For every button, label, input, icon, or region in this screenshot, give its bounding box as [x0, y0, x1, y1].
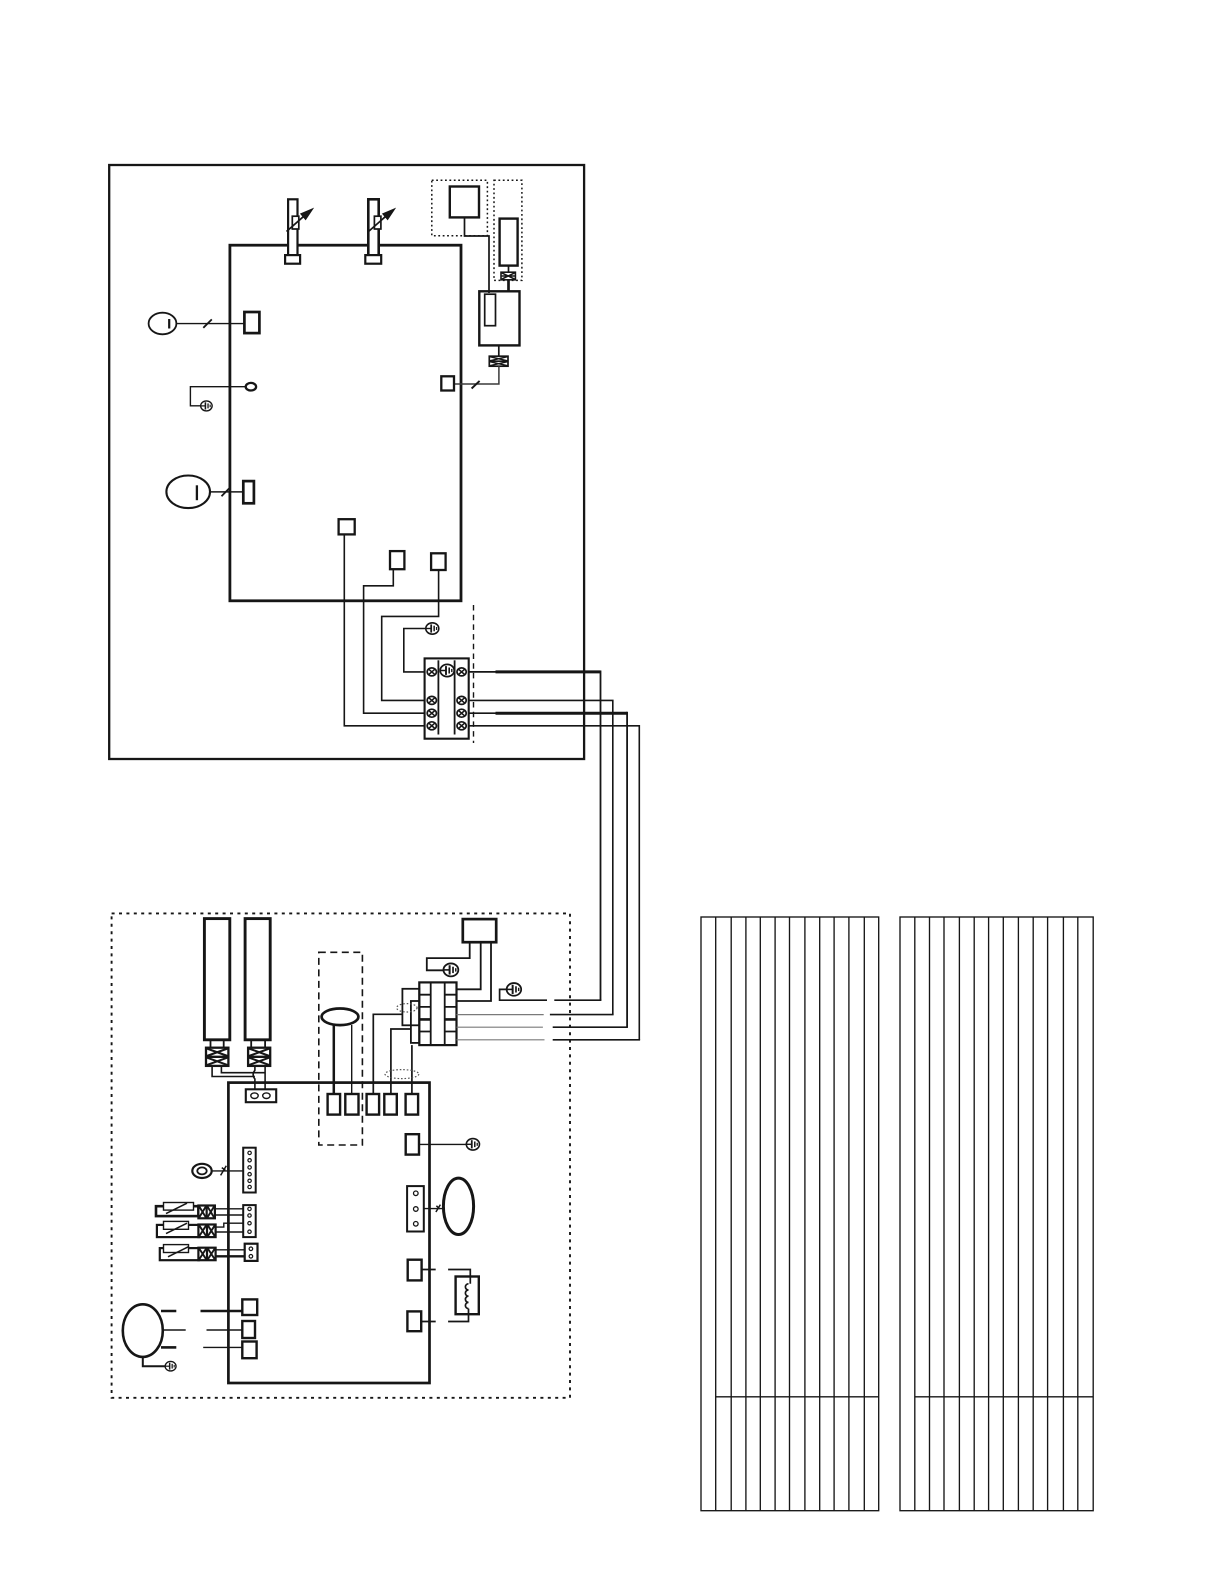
wire FH1 lead b [221, 1066, 265, 1073]
fan motor M2 [443, 1178, 473, 1234]
interunit wire W4 [469, 726, 640, 1040]
board terminal BT1 [328, 1094, 341, 1115]
thermistor TH3 [160, 1245, 199, 1261]
wires FT1 to CN3 [215, 1209, 243, 1215]
sensor probe S1 [285, 199, 312, 263]
board terminal BT4 [384, 1094, 397, 1115]
H1 neck leads [211, 1040, 224, 1048]
thermal fuse FH1 [206, 1048, 228, 1066]
wire RA to earth [419, 1143, 466, 1145]
gray wire TB2 row3 right [457, 1014, 544, 1016]
table 1 grid [701, 917, 879, 1511]
gray wire TB2 row4 right [457, 1026, 543, 1028]
terminal rect T1 [244, 312, 259, 333]
connector CN3 four holes [243, 1205, 256, 1237]
ring opening O1 [246, 383, 256, 391]
wire F2 to terminal TB [454, 366, 499, 384]
wire PR lead 3 [457, 942, 492, 1001]
wire coil to RC [421, 1309, 468, 1322]
wire RB to coil [422, 1270, 471, 1284]
interunit wire W3 [469, 712, 627, 1027]
wire PR lead 2 [457, 942, 481, 989]
connector CN5 three holes [407, 1186, 424, 1231]
gray wire TB2 row5 right [457, 1039, 545, 1041]
thermistor TH1 [156, 1203, 198, 1217]
wire N1 to terminal row4 [344, 534, 427, 725]
interunit wire W1 [469, 671, 601, 1001]
switch slash [472, 381, 480, 389]
connector CN4 two holes [245, 1244, 258, 1261]
wire FH2 lead a with hop [253, 1066, 255, 1089]
earth symbol G6 [466, 1139, 479, 1150]
wire FH2 lead b [264, 1066, 266, 1089]
node square N3 [431, 553, 446, 570]
pressure switch P1 [149, 313, 177, 335]
component square U1 [450, 187, 479, 218]
heater element H2 [245, 919, 270, 1040]
wire FH1 lead a [212, 1066, 255, 1077]
wire FM1 to T2 [210, 491, 243, 493]
wire U2 to fuse F1 [508, 266, 510, 273]
slash fan wire [436, 1205, 441, 1212]
switch slash P1 [203, 319, 212, 327]
M1 wire 3 [161, 1346, 242, 1349]
wire CN5 to fan [424, 1208, 444, 1210]
dotted option box B [494, 180, 522, 280]
board terminal RC [407, 1311, 421, 1331]
wire PR earth lead [427, 942, 470, 970]
wires FT3 to CN4 [216, 1250, 245, 1257]
TB2 left tab A [402, 989, 419, 1026]
transformer lead thick [333, 1025, 336, 1094]
wire w3 lower segment [553, 1026, 628, 1028]
coil box L1 [456, 1277, 479, 1315]
fuse FT3 [198, 1248, 215, 1261]
earth symbol G3 [443, 963, 458, 976]
wire TB2 row5 to BT5 [411, 1045, 413, 1094]
power entry rect PR [463, 919, 496, 942]
earth symbol G2 [426, 623, 439, 634]
wire O2 to CN2 [212, 1170, 244, 1172]
wire N2 to terminal row3 [364, 569, 427, 713]
thermal fuse FH2 [248, 1048, 270, 1066]
board terminal BT2 [345, 1094, 358, 1115]
component rect U2 [500, 219, 518, 266]
compressor motor M1 [123, 1304, 163, 1357]
sensor probe S2 [365, 199, 394, 263]
transformer ellipse [322, 1009, 359, 1026]
dotted cable marker 2 [385, 1070, 419, 1079]
dotted cable marker 1 [397, 1004, 417, 1012]
board terminal BL2 [242, 1321, 255, 1338]
fuse F2 [489, 356, 508, 366]
wire w4 lower segment [553, 1039, 640, 1041]
heater element H1 [204, 919, 229, 1040]
lower unit dotted border [112, 913, 570, 1397]
transformer lead thin [351, 1025, 353, 1094]
terminal square TB [441, 376, 454, 390]
node square N2 [390, 551, 404, 569]
ring sensor O2 [192, 1164, 211, 1178]
TB2 left tab B [411, 1001, 419, 1043]
board terminal BL3 [242, 1342, 256, 1359]
wire O1 to earth [190, 387, 245, 406]
wire TB2 row4 to BT4 [391, 1029, 411, 1094]
terminal rect T2 [243, 481, 254, 503]
dashed separation line [473, 605, 475, 743]
M1 wire 1 [161, 1310, 242, 1313]
wire F1 to relay box [507, 280, 510, 292]
board terminal BT3 [367, 1094, 380, 1115]
dashed transformer box [319, 952, 363, 1145]
board terminal RA [406, 1134, 419, 1154]
fuse FT1 [198, 1206, 215, 1219]
wire U1 to relay box [465, 217, 490, 293]
relay inner rect [485, 294, 496, 326]
earth symbol G5 [165, 1361, 176, 1371]
slash O2 wire [221, 1166, 227, 1176]
TB1 terminals left [427, 668, 436, 676]
fan motor FM1 [166, 476, 210, 509]
interunit wire W2 [469, 700, 613, 1014]
wire N3 to terminal row2 [382, 570, 439, 700]
board terminal BL1 [242, 1299, 257, 1315]
wire P1 to T1 [176, 323, 244, 325]
node square N1 [339, 519, 355, 534]
thermistor TH2 [157, 1221, 199, 1237]
wires FT2 to CN3 [216, 1223, 244, 1232]
lower terminal block TB2 [419, 982, 456, 1045]
M1 earth wire [143, 1357, 165, 1367]
TB1 earth [440, 664, 454, 676]
switch slash FM1 [222, 488, 230, 497]
M1 wire 2 [163, 1329, 243, 1331]
relay box U3 [479, 291, 519, 345]
connector CN2 six holes [243, 1148, 256, 1193]
TB1 terminals right [457, 668, 466, 676]
dotted option box A [432, 180, 488, 236]
wire TB2 row3 to BT3 [373, 1014, 402, 1094]
coil winding [465, 1284, 468, 1309]
H2 neck leads [251, 1040, 265, 1048]
fuse F1 [501, 272, 515, 280]
earth symbol G4 [507, 983, 522, 996]
heater connector CN1 [246, 1089, 276, 1102]
inner unit box [230, 245, 461, 601]
table 2 grid [900, 917, 1093, 1511]
outer enclosure box [109, 165, 584, 759]
board terminal BT5 [406, 1094, 419, 1115]
board terminal RB [408, 1260, 422, 1281]
wire G2 to terminal row1 [404, 629, 427, 672]
terminal block TB1 [425, 658, 469, 738]
wire G4 to W1 [500, 989, 602, 1000]
earth symbol G1 [201, 401, 212, 411]
wire U3 to fuse F2 [498, 345, 500, 356]
control board outline [228, 1083, 429, 1383]
fuse FT2 [198, 1225, 215, 1238]
wire w2 lower segment [550, 1014, 614, 1016]
